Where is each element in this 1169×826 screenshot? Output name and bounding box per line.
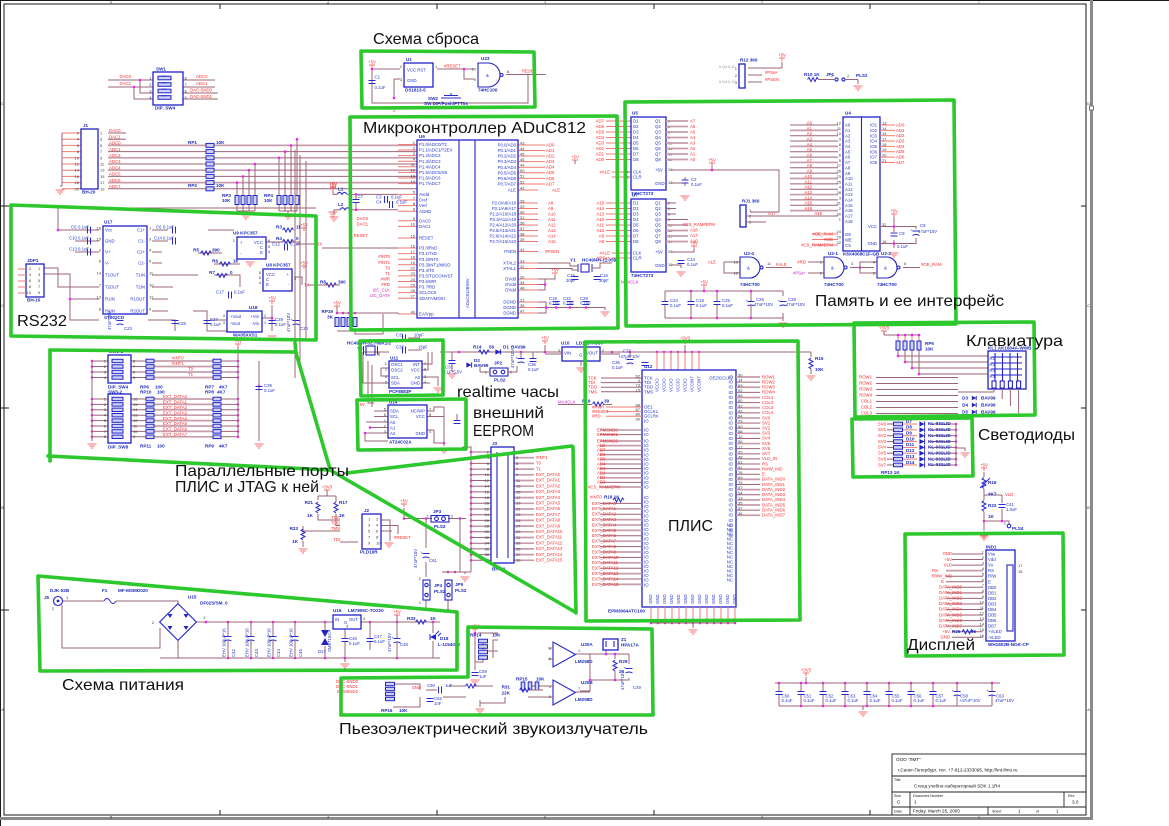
power +5V caps <box>700 280 708 289</box>
wire U4 data stubs <box>880 125 916 248</box>
svg-text:D5: D5 <box>633 141 639 146</box>
connector PLS4 <box>1004 521 1024 532</box>
svg-text:EXT_DATA8: EXT_DATA8 <box>592 544 617 549</box>
svg-text:EXT_DATA3: EXT_DATA3 <box>536 489 561 494</box>
svg-text:0.1uF: 0.1uF <box>78 236 89 241</box>
wire RP3 RP4 pulldowns <box>236 138 299 214</box>
capacitor C22 0.1uF <box>563 296 574 306</box>
svg-text:A7: A7 <box>807 158 813 163</box>
svg-text:47uF*10V: 47uF*10V <box>413 549 418 568</box>
svg-text:ADC2: ADC2 <box>109 153 121 158</box>
resistor network RP9 4K7 <box>205 397 228 448</box>
svg-text:AD5: AD5 <box>596 129 605 134</box>
resistor R5 390 <box>193 248 220 256</box>
svg-text:25: 25 <box>516 518 521 523</box>
svg-text:C12: C12 <box>272 242 280 247</box>
capacitor C56 0.1uF <box>908 692 925 704</box>
svg-text:47uF*10V: 47uF*10V <box>918 229 937 234</box>
svg-text:P3.4/T0: P3.4/T0 <box>419 268 435 273</box>
svg-text:43: 43 <box>520 140 525 145</box>
svg-text:18: 18 <box>75 180 80 185</box>
svg-text:14: 14 <box>75 168 80 173</box>
resistor R29 <box>613 659 628 674</box>
svg-text:KL-931LID: KL-931LID <box>928 421 951 426</box>
svg-text:Sheet: Sheet <box>992 810 1001 814</box>
svg-text:EXT_DATA9: EXT_DATA9 <box>592 549 617 554</box>
power +5V out <box>393 610 401 623</box>
svg-text:DATA_IND7: DATA_IND7 <box>762 513 786 518</box>
svg-text:U23: U23 <box>481 56 490 61</box>
svg-text:GND: GND <box>415 431 425 436</box>
svg-text:A18: A18 <box>690 227 698 232</box>
svg-text:20: 20 <box>75 186 80 191</box>
crystal Y1 HC49/4H-11.0592 <box>538 258 619 273</box>
svg-text:D7: D7 <box>633 152 639 157</box>
svg-text:GND: GND <box>704 594 709 604</box>
capacitor C36 0.1uF <box>612 360 649 370</box>
svg-text:+5V: +5V <box>655 168 663 173</box>
resistor network RP14 10K <box>470 633 501 660</box>
svg-text:P2.1/A9/A17: P2.1/A9/A17 <box>492 206 517 211</box>
svg-text:30: 30 <box>520 209 525 214</box>
svg-text:EXT_DATA14: EXT_DATA14 <box>592 576 619 581</box>
wire FPGA left stubs <box>600 378 642 584</box>
svg-text:AD3: AD3 <box>896 138 905 143</box>
power +3V3 JTAG <box>322 485 333 497</box>
svg-text:A2: A2 <box>807 131 813 136</box>
svg-text:P1.1/ADC1/T2EX: P1.1/ADC1/T2EX <box>419 148 453 153</box>
wire SW3 rows <box>91 347 261 441</box>
connector J1 BH-20 <box>75 123 106 195</box>
svg-text:0.1uF: 0.1uF <box>528 367 539 372</box>
svg-text:Стенд учебно-лабораторный SDK: Стенд учебно-лабораторный SDK 1.1R4 <box>914 783 1001 789</box>
svg-text:T2OUT: T2OUT <box>105 285 119 290</box>
svg-text:#OE_RAM: #OE_RAM <box>812 231 833 236</box>
svg-text:D5: D5 <box>633 223 639 228</box>
capacitor C30 47uF*10V <box>286 313 308 332</box>
svg-text:C61: C61 <box>429 558 437 563</box>
svg-text:P1.0/ADC0/T2: P1.0/ADC0/T2 <box>419 142 447 147</box>
highlight box realtime clock <box>360 340 443 396</box>
capacitor C35 0.1uF <box>528 352 539 372</box>
svg-text:#CS_RAM#EPM: #CS_RAM#EPM <box>683 222 715 227</box>
svg-text:8.Out 8.12: 8.Out 8.12 <box>719 80 735 84</box>
svg-text:47uF*10V: 47uF*10V <box>107 311 112 330</box>
IC U17 ST202CD <box>97 220 155 321</box>
svg-text:1: 1 <box>1018 809 1021 814</box>
svg-text:R10 1K: R10 1K <box>804 72 820 77</box>
highlight box RS232 <box>11 205 316 340</box>
svg-text:C9: C9 <box>899 231 905 236</box>
svg-text:C2-: C2- <box>138 261 145 266</box>
svg-text:C32: C32 <box>396 345 404 350</box>
svg-text:A11: A11 <box>845 181 853 186</box>
svg-text:LM258D: LM258D <box>575 659 593 664</box>
svg-text:KL-931LID: KL-931LID <box>928 456 951 461</box>
svg-text:14: 14 <box>97 270 102 275</box>
svg-text:A7: A7 <box>690 118 696 123</box>
svg-text:10: 10 <box>133 429 138 434</box>
capacitor C14 0.1uF <box>678 257 699 267</box>
power +5V R12 <box>778 53 786 62</box>
svg-text:EXT_DATA7: EXT_DATA7 <box>592 539 617 544</box>
svg-text:RESET: RESET <box>354 233 369 238</box>
svg-text:#CS_RAM#EPM: #CS_RAM#EPM <box>588 484 620 489</box>
svg-text:внешний: внешний <box>473 405 544 422</box>
svg-text:VCC RST: VCC RST <box>407 68 426 73</box>
svg-text:PSEN: PSEN <box>504 249 516 254</box>
connector JDP1 BH-10 <box>18 258 44 303</box>
svg-text:12: 12 <box>837 120 842 125</box>
svg-text:+5V: +5V <box>551 268 559 273</box>
wire JTAG area <box>303 496 398 547</box>
svg-text:PLS2: PLS2 <box>434 589 446 594</box>
svg-text:U12: U12 <box>644 364 653 369</box>
svg-text:ROW4: ROW4 <box>859 393 873 398</box>
svg-text:A4: A4 <box>690 135 696 140</box>
svg-text:RP2: RP2 <box>188 183 197 188</box>
svg-text:DJK-02B: DJK-02B <box>50 588 70 593</box>
capacitor C55 0.1uF <box>886 692 903 704</box>
ground rail right <box>329 212 338 216</box>
svg-text:-Vin: -Vin <box>251 321 259 326</box>
svg-text:A10: A10 <box>845 176 853 181</box>
svg-text:AD1: AD1 <box>596 151 605 156</box>
svg-text:P0.5/AD5: P0.5/AD5 <box>498 170 517 175</box>
capacitor C51 0.1uF <box>798 692 815 704</box>
svg-text:AD5: AD5 <box>896 149 905 154</box>
svg-text:AD2: AD2 <box>596 146 605 151</box>
svg-text:A16: A16 <box>845 208 853 213</box>
LED D13 KL-931LID <box>894 454 952 462</box>
svg-text:AD7: AD7 <box>546 181 555 186</box>
svg-text:DGND: DGND <box>503 311 516 316</box>
svg-text:27: 27 <box>516 524 521 529</box>
ground C39 <box>255 444 264 448</box>
svg-text:A16: A16 <box>804 206 812 211</box>
svg-text:0.1uF: 0.1uF <box>804 698 815 703</box>
svg-text:R/#W_IND: R/#W_IND <box>931 573 952 578</box>
svg-text:+5V: +5V <box>329 183 337 188</box>
svg-text:EXT_DATA4: EXT_DATA4 <box>163 416 188 421</box>
svg-text:74HCT00: 74HCT00 <box>740 282 760 287</box>
svg-text:74HCT00: 74HCT00 <box>877 282 897 287</box>
svg-text:14: 14 <box>485 484 490 489</box>
svg-text:P1.2/ADC2: P1.2/ADC2 <box>419 153 441 158</box>
diode D1 BAV99 <box>495 345 526 355</box>
svg-text:1uF: 1uF <box>479 674 487 679</box>
svg-text:C30: C30 <box>300 326 308 331</box>
svg-text:15pF: 15pF <box>418 345 428 350</box>
svg-text:C45: C45 <box>298 649 303 657</box>
highlight box ADuC812 <box>350 116 618 330</box>
svg-text:29: 29 <box>516 529 521 534</box>
svg-text:#RESET: #RESET <box>444 64 461 69</box>
svg-text:Клавиатура: Клавиатура <box>966 333 1063 350</box>
svg-text:P3.3/INT1/MISO: P3.3/INT1/MISO <box>419 262 451 267</box>
svg-text:10K: 10K <box>492 633 501 638</box>
svg-text:EXT_DATA13: EXT_DATA13 <box>592 571 619 576</box>
IC U1 DS1813-5 <box>400 57 438 93</box>
svg-text:XTAL1: XTAL1 <box>503 266 516 271</box>
svg-text:RP5: RP5 <box>925 341 934 346</box>
svg-text:Пьезоэлектрический звукоизлуча: Пьезоэлектрический звукоизлучатель <box>339 721 648 738</box>
optocoupler U8 KPC357 <box>259 263 297 292</box>
svg-text:Микроконтроллер ADuC812: Микроконтроллер ADuC812 <box>363 120 586 137</box>
svg-text:U17: U17 <box>104 220 113 225</box>
svg-text:A7: A7 <box>845 160 851 165</box>
resistor R22 1K <box>982 501 997 520</box>
wire power circuit <box>62 601 440 662</box>
svg-text:3K: 3K <box>327 315 334 320</box>
svg-text:10: 10 <box>75 155 80 160</box>
svg-text:+5V: +5V <box>300 223 308 228</box>
svg-text:Rev: Rev <box>1068 794 1075 798</box>
svg-text:SV6: SV6 <box>878 456 887 461</box>
svg-text:D2: D2 <box>633 124 639 129</box>
power +5V SW block <box>234 339 242 348</box>
svg-text:WH1602B-NGK-CP: WH1602B-NGK-CP <box>988 642 1029 647</box>
svg-text:A12: A12 <box>548 223 556 228</box>
svg-text:PLS4: PLS4 <box>1012 526 1024 531</box>
ground LEDs <box>961 453 970 457</box>
svg-text:Q7: Q7 <box>655 234 661 239</box>
svg-text:GND: GND <box>683 594 688 604</box>
svg-text:EXT_DATA0: EXT_DATA0 <box>592 501 617 506</box>
capacitor C63 47uF*10V <box>987 688 1015 703</box>
svg-text:Y1: Y1 <box>570 258 576 263</box>
svg-text:25: 25 <box>411 282 416 287</box>
capacitor C24 0.1uF <box>662 296 682 313</box>
svg-text:A1: A1 <box>690 151 696 156</box>
svg-text:AD7: AD7 <box>596 118 605 123</box>
svg-text:HPA17A: HPA17A <box>621 643 639 648</box>
resistor R8 390 <box>320 280 346 288</box>
svg-text:0.1uF: 0.1uF <box>163 225 174 230</box>
svg-text:GND: GND <box>662 594 667 604</box>
svg-text:Q6: Q6 <box>655 228 661 233</box>
svg-text:A: A <box>1 707 4 712</box>
svg-text:SV0: SV0 <box>878 421 887 426</box>
svg-text:26: 26 <box>837 169 842 174</box>
resistor network RP19 3K <box>322 309 399 334</box>
svg-text:RS232: RS232 <box>17 313 67 330</box>
svg-text:R15: R15 <box>815 356 824 361</box>
svg-text:0.1uF: 0.1uF <box>563 301 574 306</box>
diode D4 BAV99 <box>962 403 996 408</box>
svg-text:SDA: SDA <box>390 409 399 414</box>
power +5V buzzer <box>471 624 479 633</box>
svg-text:C: C <box>1087 303 1090 308</box>
svg-text:0.1uF: 0.1uF <box>848 698 859 703</box>
svg-text:EHV 100uF*16: EHV 100uF*16 <box>222 628 227 657</box>
capacitor C31 10pF <box>396 333 424 342</box>
svg-text:R6: R6 <box>212 259 218 264</box>
svg-text:R14: R14 <box>473 345 482 350</box>
svg-text:A12: A12 <box>596 217 604 222</box>
svg-text:EXT_DATA15: EXT_DATA15 <box>536 558 563 563</box>
svg-text:47uF*10V: 47uF*10V <box>754 302 773 307</box>
svg-text:0.1uF: 0.1uF <box>163 236 174 241</box>
svg-text:A14: A14 <box>596 206 604 211</box>
svg-text:A3: A3 <box>807 136 813 141</box>
svg-text:37: 37 <box>520 226 525 231</box>
optocoupler U9 KPC357 <box>233 231 271 260</box>
svg-text:TX: TX <box>304 283 310 288</box>
svg-text:IO7: IO7 <box>870 155 878 160</box>
svg-text:A6: A6 <box>845 155 851 160</box>
svg-text:BAV99: BAV99 <box>474 363 489 368</box>
power +5V U7 <box>690 241 698 250</box>
svg-text:C3: C3 <box>376 194 382 199</box>
svg-text:33: 33 <box>516 541 521 546</box>
ground AVdd <box>330 217 339 221</box>
svg-text:A5: A5 <box>807 147 813 152</box>
svg-text:26: 26 <box>411 288 416 293</box>
svg-text:A14: A14 <box>845 198 853 203</box>
svg-text:RP1: RP1 <box>188 140 197 145</box>
svg-text:A15: A15 <box>845 203 853 208</box>
svg-text:A6: A6 <box>807 153 813 158</box>
svg-text:16: 16 <box>75 174 80 179</box>
svg-text:22K: 22K <box>502 691 511 696</box>
svg-text:22: 22 <box>411 266 416 271</box>
svg-text:0.1uF: 0.1uF <box>936 698 947 703</box>
svg-text:IO6: IO6 <box>870 149 878 154</box>
resistor network RP16 10K <box>381 682 408 713</box>
svg-text:IO5: IO5 <box>870 144 878 149</box>
svg-text:ROW1: ROW1 <box>859 375 873 380</box>
svg-text:Q8: Q8 <box>655 239 661 244</box>
svg-text:ALE: ALE <box>508 188 516 193</box>
svg-text:GND: GND <box>410 381 420 386</box>
svg-text:U16: U16 <box>333 608 342 613</box>
keypad KL1 AK1604A-WWB <box>988 346 1032 390</box>
svg-text:D9: D9 <box>906 431 912 436</box>
svg-text:GND: GND <box>407 78 417 83</box>
capacitor C37 47uF*10V <box>618 349 640 365</box>
svg-text:A9: A9 <box>845 171 851 176</box>
svg-text:+5V: +5V <box>300 261 308 266</box>
svg-text:BAV99: BAV99 <box>981 396 996 401</box>
svg-text:C: C <box>1 303 4 308</box>
svg-text:0.1uF: 0.1uF <box>396 200 407 205</box>
svg-text:R29: R29 <box>619 659 628 664</box>
svg-text:COL1: COL1 <box>861 399 873 404</box>
svg-text:D14: D14 <box>906 460 915 465</box>
svg-text:#PSEN: #PSEN <box>765 77 779 82</box>
svg-text:A13: A13 <box>596 211 604 216</box>
svg-text:GND: GND <box>697 594 702 604</box>
svg-text:A0: A0 <box>845 123 851 128</box>
svg-text:30: 30 <box>837 211 842 216</box>
resistor network RP1 10K <box>188 140 225 191</box>
svg-text:realtime часы: realtime часы <box>457 384 559 401</box>
svg-text:A13: A13 <box>804 190 812 195</box>
svg-text:46: 46 <box>520 157 525 162</box>
ground RP3 <box>242 215 251 219</box>
svg-text:KL-931LID: KL-931LID <box>928 427 951 432</box>
capacitor C15 30pF <box>566 273 579 283</box>
svg-text:R17: R17 <box>339 500 348 505</box>
power +3V3 caps row <box>801 668 812 677</box>
op-amp U20B LM258D <box>548 680 593 705</box>
svg-text:DVdd: DVdd <box>505 288 516 293</box>
svg-text:Q5: Q5 <box>655 223 661 228</box>
wire EEPROM internals <box>364 407 457 446</box>
svg-text:P2.2/A10/A18: P2.2/A10/A18 <box>489 212 516 217</box>
wire gate U2-1 inputs <box>808 262 874 273</box>
svg-text:19: 19 <box>411 260 416 265</box>
svg-text:52: 52 <box>520 179 525 184</box>
ground EEPROM <box>440 449 449 453</box>
wire U7 outputs <box>666 203 694 268</box>
svg-text:12: 12 <box>133 418 138 423</box>
svg-text:C28: C28 <box>178 321 186 326</box>
highlight box display <box>905 533 1064 656</box>
svg-text:C5: C5 <box>71 225 77 230</box>
svg-text:A2: A2 <box>690 146 696 151</box>
svg-text:VCCIO: VCCIO <box>676 378 681 392</box>
svg-text:16: 16 <box>97 225 102 230</box>
svg-text:A18: A18 <box>814 211 822 216</box>
svg-text:0.1uF: 0.1uF <box>722 303 733 308</box>
svg-text:EXT_DATA2: EXT_DATA2 <box>592 512 617 517</box>
power +5V display <box>980 463 988 472</box>
svg-text:Q1: Q1 <box>655 119 661 124</box>
svg-text:GND: GND <box>676 594 681 604</box>
svg-text:DGND: DGND <box>503 305 516 310</box>
svg-text:R2OUT: R2OUT <box>130 309 145 314</box>
svg-text:DS1813-5: DS1813-5 <box>405 88 426 93</box>
svg-text:LM258D: LM258D <box>575 697 593 702</box>
svg-text:AD0: AD0 <box>546 142 555 147</box>
svg-text:15: 15 <box>411 233 416 238</box>
svg-text:A4: A4 <box>845 144 851 149</box>
svg-text:RP14: RP14 <box>470 633 482 638</box>
svg-text:GND: GND <box>942 551 952 556</box>
svg-text:NC: NC <box>727 578 733 583</box>
svg-text:DGND: DGND <box>503 300 516 305</box>
svg-text:D12: D12 <box>906 448 915 453</box>
diode D5 BAV99 <box>962 410 996 415</box>
DC-DC U18 WA05XXS1 <box>223 305 267 338</box>
svg-text:Cref: Cref <box>419 198 428 203</box>
wire gate U2-2 inputs <box>860 262 920 273</box>
svg-text:R1IN: R1IN <box>105 297 115 302</box>
capacitor C14 0.1uF <box>154 236 176 245</box>
svg-text:C48: C48 <box>400 642 408 647</box>
svg-text:+5V: +5V <box>944 557 952 562</box>
svg-text:EXT_DATA11: EXT_DATA11 <box>592 560 619 565</box>
svg-text:RP9: RP9 <box>205 444 214 449</box>
svg-text:P3.2/INT0: P3.2/INT0 <box>419 257 439 262</box>
power +5V AVdd <box>329 183 337 192</box>
wire buzzer block <box>393 632 629 707</box>
svg-text:#CS_RAM#EPM: #CS_RAM#EPM <box>801 242 833 247</box>
capacitor C5 0.1uF <box>71 225 91 234</box>
svg-text:Дисплей: Дисплей <box>907 637 975 654</box>
svg-text:I2C_CLK: I2C_CLK <box>373 288 391 293</box>
svg-text:K6X4008C1F-GB: K6X4008C1F-GB <box>843 252 880 257</box>
svg-text:A5: A5 <box>690 129 696 134</box>
svg-text:+Vout: +Vout <box>230 314 242 319</box>
svg-text:13: 13 <box>133 413 138 418</box>
svg-text:EXT_DATA5: EXT_DATA5 <box>163 421 188 426</box>
svg-text:D8: D8 <box>633 239 639 244</box>
svg-text:EXT_DATA4: EXT_DATA4 <box>536 495 561 500</box>
svg-text:Q1: Q1 <box>655 201 661 206</box>
